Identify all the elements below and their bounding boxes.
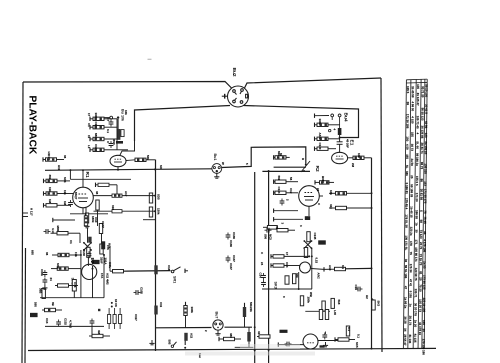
svg-text:41: 41 (257, 331, 261, 335)
svg-text:105 171 SL: 105 171 SL (404, 235, 408, 250)
svg-text:24: 24 (260, 262, 264, 266)
svg-text:C12: C12 (289, 188, 293, 194)
svg-text:82: 82 (279, 153, 283, 157)
resistor R32 vertical (185, 302, 187, 306)
tube V2 (73, 187, 94, 208)
frame right border (381, 78, 382, 352)
svg-text:2a 55: 2a 55 (423, 261, 427, 269)
junction rail right (371, 267, 373, 269)
resistor R24 (58, 253, 69, 256)
resistor shading bands (47, 118, 362, 312)
wire down w2 (92, 266, 94, 298)
wire Bu1 right riser (222, 147, 306, 168)
svg-text:C105: C105 (140, 287, 144, 294)
svg-text:20: 20 (419, 277, 423, 281)
svg-text:59 SL 186: 59 SL 186 (404, 265, 408, 279)
svg-text:SD: SD (159, 165, 163, 169)
svg-text:H 117: H 117 (30, 208, 34, 216)
svg-text:58 20 105: 58 20 105 (424, 84, 428, 97)
junction pair (111, 302, 113, 304)
network row R42 (314, 147, 316, 151)
svg-text:WB: WB (309, 292, 313, 297)
bus lower B (40, 297, 104, 299)
svg-text:178 155 186: 178 155 186 (422, 339, 426, 356)
rail center-right vertical (268, 171, 270, 363)
svg-text:59 186 28: 59 186 28 (410, 184, 414, 197)
svg-text:C136: C136 (232, 232, 236, 239)
svg-text:0.22: 0.22 (315, 258, 319, 264)
wire cluster B to switch (122, 270, 170, 273)
resistor R67 vertical (322, 301, 325, 311)
wire B bottom drop (91, 326, 93, 337)
svg-text:HOL: HOL (108, 262, 112, 268)
svg-text:SK5: SK5 (377, 301, 381, 307)
svg-text:47 41: 47 41 (409, 279, 413, 287)
svg-text:81 135: 81 135 (408, 334, 412, 343)
resistor vertical at 101 (99, 224, 102, 234)
wire cathode mid-right (274, 166, 306, 168)
network row R4 (89, 125, 91, 129)
svg-text:R2: R2 (314, 166, 320, 172)
svg-text:R1: R1 (84, 172, 90, 178)
V4 pins (308, 206, 310, 216)
svg-text:11k: 11k (63, 190, 67, 195)
resistor trio 3 (119, 315, 122, 324)
svg-text:0.1: 0.1 (357, 334, 361, 338)
capacitor C136 (226, 233, 231, 240)
svg-text:0.1: 0.1 (347, 327, 351, 331)
svg-text:155 5 5: 155 5 5 (415, 176, 419, 186)
svg-text:SD1: SD1 (63, 177, 67, 183)
connector Bu2 (222, 86, 249, 107)
pin input right channel row (314, 114, 316, 118)
wire net to grid (117, 149, 128, 151)
stem from pin (117, 119, 119, 129)
electrolytic E10 tall (101, 241, 105, 249)
rail far-right vertical (371, 158, 373, 349)
svg-text:30 41 5: 30 41 5 (424, 104, 428, 114)
rail center-left vertical (254, 172, 256, 363)
svg-text:25: 25 (410, 175, 414, 179)
svg-text:C137: C137 (229, 263, 233, 270)
junction dots B (80, 254, 82, 256)
svg-text:22k: 22k (249, 307, 253, 312)
network row R40 (314, 123, 316, 127)
svg-text:50k: 50k (249, 302, 253, 307)
resistor R27 (45, 308, 56, 311)
pin filled (117, 116, 119, 118)
capacitor C137 (226, 256, 231, 263)
svg-text:C117: C117 (134, 314, 138, 321)
table outline (403, 79, 427, 348)
frame left border inner (24, 248, 27, 363)
junction dots E (311, 255, 313, 257)
svg-text:0B: 0B (51, 302, 55, 306)
svg-text:1M: 1M (63, 201, 67, 206)
tube V5 (332, 152, 348, 163)
svg-text:SR1: SR1 (173, 276, 177, 283)
row R47 (273, 209, 275, 213)
svg-text:595: 595 (34, 302, 38, 307)
svg-text:C: C (260, 252, 264, 255)
svg-text:C145: C145 (313, 233, 317, 240)
svg-text:H11: H11 (57, 165, 61, 171)
svg-text:Bu2: Bu2 (231, 68, 237, 77)
svg-text:41F: 41F (329, 204, 333, 209)
svg-text:17k: 17k (74, 252, 78, 257)
svg-text:2: 2 (286, 199, 290, 201)
svg-text:C18: C18 (167, 265, 171, 271)
wire Bu2 to top-right corner (245, 78, 382, 88)
resistor R10 (43, 191, 45, 195)
resistor R66 vertical (300, 296, 303, 306)
svg-text:E1: E1 (349, 140, 355, 146)
resistor R20 vertical (84, 216, 87, 226)
svg-text:C137: C137 (232, 255, 236, 262)
junction dots D (305, 164, 307, 166)
row R45 (273, 180, 275, 184)
connector Bu1 (212, 164, 222, 174)
wire R21 link (79, 233, 81, 243)
svg-text:C15: C15 (354, 285, 358, 291)
svg-text:318: 318 (111, 205, 115, 210)
resistor R31 on rail low (154, 306, 157, 315)
svg-text:36k: 36k (48, 175, 52, 180)
svg-text:2a 20: 2a 20 (413, 320, 417, 328)
svg-text:50k: 50k (146, 155, 150, 160)
capacitor pair (322, 333, 327, 340)
svg-text:6SQ7: 6SQ7 (74, 192, 78, 200)
svg-text:59: 59 (406, 102, 410, 106)
tube V1 (110, 155, 126, 166)
tube V8 bottom right (303, 334, 318, 349)
scan smudge bottom (185, 352, 315, 356)
svg-text:0.1: 0.1 (341, 265, 345, 269)
svg-text:Bu1: Bu1 (213, 154, 217, 161)
ground right (323, 342, 328, 347)
wire V2 lower bus (70, 213, 108, 215)
svg-text:58: 58 (419, 220, 423, 224)
resistor trio 1 (108, 315, 111, 324)
svg-text:75: 75 (423, 210, 427, 214)
dark resistor above X (88, 237, 91, 243)
svg-text:C14: C14 (285, 262, 289, 268)
capacitor C142b (261, 273, 266, 280)
striped resistor vertical (117, 129, 120, 140)
svg-text:175 34: 175 34 (409, 264, 413, 273)
resistor trio 2 (113, 315, 116, 324)
ground V2 (84, 223, 89, 228)
resistor row to rail 2 (94, 210, 113, 212)
svg-text:98 186 2a: 98 186 2a (415, 153, 419, 166)
svg-text:36 28: 36 28 (403, 316, 407, 324)
resistor R51 (314, 180, 316, 184)
crossing X1 (83, 242, 92, 251)
wire Bu7 left (156, 327, 212, 329)
bus E (262, 288, 312, 290)
svg-text:2M: 2M (351, 163, 355, 168)
svg-text:135: 135 (416, 84, 420, 89)
wire V1 cathode (117, 167, 119, 170)
dark blob on bus (320, 345, 325, 347)
svg-text:135 5: 135 5 (406, 86, 410, 94)
svg-text:1b: 1b (415, 222, 419, 226)
svg-text:2a 135 20: 2a 135 20 (424, 141, 428, 154)
svg-text:A17: A17 (124, 191, 128, 197)
trio leads (108, 308, 110, 315)
svg-text:171 20: 171 20 (415, 193, 419, 202)
resistor R21 (57, 232, 68, 235)
capacitor C160 (285, 342, 292, 347)
svg-text:171 55 175: 171 55 175 (423, 189, 427, 204)
potentiometer SK0 (85, 213, 88, 223)
electrolytic E4 vertical (338, 128, 342, 135)
svg-text:30k: 30k (295, 273, 299, 278)
svg-text:0: 0 (282, 296, 286, 298)
resistor R53 to rail (336, 206, 347, 209)
svg-text:20 71: 20 71 (419, 242, 423, 250)
wire Bu7 right (225, 326, 253, 328)
svg-text:PLAY-BACK: PLAY-BACK (27, 96, 38, 155)
svg-text:81: 81 (419, 271, 423, 275)
wire bus to Bu1 left (45, 169, 212, 171)
svg-text:C141: C141 (40, 269, 44, 276)
junction rail C (254, 326, 256, 328)
svg-text:36 20 178: 36 20 178 (414, 303, 418, 316)
svg-text:41 135: 41 135 (413, 334, 417, 343)
svg-text:NC3: NC3 (269, 234, 273, 240)
svg-text:4 175 186: 4 175 186 (423, 239, 427, 252)
capacitor C105b (134, 290, 141, 295)
resistor R68 vertical (331, 298, 334, 308)
capacitor below X (87, 251, 92, 258)
svg-text:186 58: 186 58 (415, 210, 419, 219)
svg-text:SD5: SD5 (157, 194, 161, 200)
wire riser above row (116, 185, 118, 196)
svg-text:C: C (317, 203, 321, 206)
svg-text:150: 150 (405, 136, 409, 141)
svg-text:4.7M2: 4.7M2 (69, 320, 73, 328)
svg-text:96 55 123: 96 55 123 (420, 108, 424, 121)
ground B2 (42, 285, 47, 290)
diagonal grid wire (301, 161, 310, 172)
resistor R9 (43, 179, 45, 183)
ground bus bottom (28, 348, 436, 350)
capacitor C107 (68, 200, 73, 207)
svg-text:86: 86 (420, 179, 424, 183)
svg-text:73 123: 73 123 (419, 230, 423, 239)
resistor row to rail 1 (94, 195, 113, 197)
svg-text:SK5: SK5 (355, 342, 359, 348)
svg-text:3: 3 (281, 223, 285, 225)
wire E low (305, 310, 330, 312)
svg-text:H2: H2 (365, 295, 369, 299)
resistor R60 vertical (307, 232, 310, 242)
resistor pair bottom E (319, 310, 322, 320)
svg-text:123: 123 (423, 181, 427, 186)
svg-text:A11 4M2: A11 4M2 (106, 273, 110, 285)
wire into tube (278, 344, 304, 346)
capacitor C110 (44, 229, 51, 234)
tube V4 (299, 186, 320, 207)
junction dots bottom (268, 349, 270, 351)
svg-text:123: 123 (424, 133, 428, 138)
capacitor C141 (43, 270, 48, 277)
svg-text:C124: C124 (277, 187, 281, 194)
svg-text:C1: C1 (69, 240, 73, 244)
pin small (329, 129, 331, 131)
svg-text:1M: 1M (48, 199, 52, 204)
svg-text:0.1: 0.1 (106, 129, 110, 133)
svg-text:4 96 30: 4 96 30 (411, 101, 415, 111)
svg-text:C11: C11 (159, 302, 163, 308)
capacitor C106 (109, 141, 114, 148)
svg-text:30 71 20: 30 71 20 (421, 86, 425, 98)
svg-text:135: 135 (422, 320, 426, 325)
resistor R84 (334, 337, 336, 341)
wire vertical w4 (298, 272, 300, 289)
resistor R81 vertical dark (184, 333, 187, 341)
svg-text:5 186 81: 5 186 81 (405, 183, 409, 195)
svg-text:C120: C120 (318, 143, 322, 150)
svg-text:75 45: 75 45 (423, 216, 427, 224)
svg-text:C10: C10 (94, 217, 98, 223)
svg-text:178: 178 (409, 241, 413, 246)
svg-text:41 96: 41 96 (424, 121, 428, 129)
svg-text:L45: L45 (333, 310, 337, 315)
svg-text:SL: SL (405, 165, 409, 169)
network row R3 (89, 117, 91, 121)
svg-text:L1: L1 (87, 145, 91, 149)
capacitor C105 (109, 120, 114, 127)
svg-text:155: 155 (410, 132, 414, 137)
capacitor C121 plates (337, 141, 343, 143)
svg-text:48: 48 (95, 191, 99, 195)
svg-text:480: 480 (229, 333, 233, 338)
svg-text:30 81 58: 30 81 58 (420, 189, 424, 201)
svg-text:120k: 120k (157, 208, 161, 215)
svg-text:28 41 71: 28 41 71 (420, 142, 424, 154)
ground Bu7 (215, 330, 220, 335)
svg-text:5 155: 5 155 (409, 291, 413, 299)
wire cluster E to right rail (345, 267, 372, 269)
switch SR1 (171, 270, 174, 273)
frame left border (22, 82, 23, 363)
stub rail crossing (143, 219, 155, 221)
svg-text:Bu 10k: Bu 10k (121, 109, 125, 122)
svg-text:36 135 86: 36 135 86 (420, 126, 424, 139)
junction dots bus (69, 169, 71, 171)
bus bottom B (45, 325, 104, 327)
svg-text:C76: C76 (73, 282, 77, 288)
svg-text:320F: 320F (100, 257, 104, 264)
svg-text:34: 34 (403, 328, 407, 332)
svg-text:171: 171 (414, 240, 418, 245)
resistor R23 vertical (100, 244, 103, 254)
svg-text:2a 59: 2a 59 (410, 158, 414, 166)
switch SR5 (171, 345, 173, 347)
wire R12 drop (97, 210, 99, 226)
capacitor C142 (43, 278, 48, 285)
svg-text:1a 66 2a: 1a 66 2a (404, 297, 408, 309)
svg-text:73 1b 73: 73 1b 73 (419, 254, 423, 266)
svg-text:1a: 1a (408, 303, 412, 307)
wire X riser (87, 228, 89, 243)
network row R41 (314, 137, 316, 141)
svg-text:Bu7: Bu7 (215, 312, 219, 319)
svg-text:180k: 180k (307, 297, 311, 304)
wire to pin (103, 117, 110, 119)
svg-text:C132: C132 (64, 318, 68, 325)
terminal and resistor R64 (323, 267, 325, 271)
capacitor C143 (261, 280, 266, 287)
resistor R11 (43, 203, 45, 207)
svg-text:17: 17 (87, 113, 91, 117)
svg-text:96 73: 96 73 (420, 162, 424, 170)
svg-text:SK3: SK3 (274, 282, 278, 289)
resistor R61 vertical short (304, 248, 307, 258)
wire Bu2 lower-left to input rail (135, 106, 231, 142)
resistor R82 (218, 337, 220, 341)
capacitor C150 (356, 287, 363, 292)
tube V6 (300, 262, 311, 273)
svg-text:135 71: 135 71 (414, 289, 418, 298)
resistor R15 vertical (149, 207, 152, 217)
svg-text:36: 36 (404, 259, 408, 263)
svg-text:41: 41 (275, 226, 279, 230)
svg-text:100k: 100k (190, 307, 194, 314)
svg-text:171 36 186: 171 36 186 (406, 114, 410, 129)
network row R5 (89, 137, 91, 141)
svg-text:4: 4 (333, 129, 337, 131)
svg-text:C147: C147 (101, 221, 105, 228)
resistor R34 vertical (247, 332, 250, 342)
resistor R52 to rail (336, 192, 347, 195)
svg-text:81 125 47: 81 125 47 (416, 93, 420, 106)
bus network vertical (116, 119, 118, 150)
vertical link (325, 332, 327, 335)
svg-text:A10: A10 (328, 265, 332, 271)
svg-text:123 59 75: 123 59 75 (414, 268, 418, 281)
svg-text:1b 45 59: 1b 45 59 (411, 86, 415, 98)
row R48 (273, 217, 275, 221)
svg-text:4: 4 (416, 133, 420, 135)
svg-text:105 71 45: 105 71 45 (416, 116, 420, 129)
svg-text:1b 45 15: 1b 45 15 (409, 206, 413, 218)
svg-text:6S0: 6S0 (112, 140, 116, 146)
wire out of tube (318, 340, 345, 342)
wire vertical w5 (311, 249, 313, 290)
svg-text:C140: C140 (82, 249, 86, 256)
cathode rows D (273, 155, 275, 159)
svg-text:695: 695 (31, 250, 35, 255)
svg-text:135 155: 135 155 (424, 163, 428, 174)
svg-text:SL 66: SL 66 (415, 141, 419, 149)
svg-text:11k: 11k (48, 187, 52, 192)
svg-text:C13: C13 (45, 318, 49, 324)
rail mid-left vertical (155, 160, 157, 352)
svg-text:Bu4: Bu4 (343, 113, 349, 122)
svg-text:10k: 10k (124, 110, 128, 115)
svg-text:25 4 73: 25 4 73 (408, 316, 412, 326)
resistor R26 small (42, 289, 45, 299)
ground bottom g1 (149, 340, 154, 345)
wire bus 2 (70, 178, 131, 180)
svg-text:175 86 135: 175 86 135 (422, 275, 426, 290)
resistor R8 anode (135, 158, 146, 161)
svg-text:595: 595 (168, 340, 172, 345)
svg-text:36: 36 (63, 155, 67, 159)
